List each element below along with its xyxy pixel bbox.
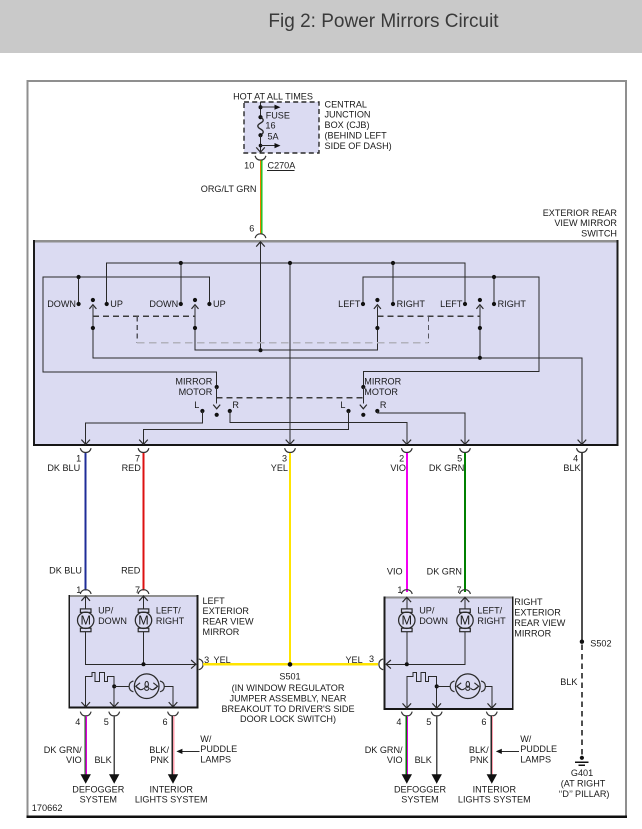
svg-text:BLK/: BLK/ [149, 745, 169, 755]
wire BLK/PNK (right mirror pin 6 w/ puddle lamps) [487, 716, 497, 784]
label MIRROR MOTOR (right selector) [364, 377, 401, 397]
switch section 3 wiper pole [374, 298, 381, 330]
wire BLK/PNK (left mirror pin 6 w/ puddle lamps) [168, 716, 178, 784]
svg-text:1: 1 [76, 453, 81, 463]
label RED (mid) [121, 565, 141, 575]
header bar [0, 0, 642, 53]
wire bus B (DOWN1/UP2 to left mirror-motor selector) [43, 275, 217, 387]
svg-text:7: 7 [457, 585, 462, 595]
label DK GRN/VIO (right) [365, 745, 403, 765]
switch pin 7 connector cup and labels (RED) [122, 448, 149, 473]
svg-text:DK BLU: DK BLU [47, 463, 80, 473]
switch pin 3 connector cup and labels (YEL) [271, 448, 296, 473]
label BLK (left pin 5) [94, 755, 111, 765]
svg-text:5: 5 [426, 717, 431, 727]
svg-text:UP/: UP/ [98, 606, 114, 616]
motor M1 UP/DOWN (left mirror) [78, 606, 127, 632]
wire bus A (common to pin 3) [107, 261, 465, 304]
label LEFT EXTERIOR REAR VIEW MIRROR [203, 596, 254, 637]
wire DK GRN/VIO (right mirror pin 4 to defogger system) [402, 716, 412, 784]
left exterior rear view mirror box [68, 595, 198, 709]
switch section 1 wiper pole [89, 298, 96, 330]
motor M2 LEFT/RIGHT (left mirror) [135, 606, 184, 632]
svg-text:DK GRN: DK GRN [427, 567, 462, 577]
w/ puddle lamps pointer arrow (right) [496, 749, 519, 754]
svg-text:4: 4 [396, 717, 401, 727]
puddle lamp (left mirror) [114, 674, 173, 703]
pin 6 entry arrow and feed wire [256, 241, 265, 350]
svg-text:RIGHT: RIGHT [498, 299, 527, 309]
svg-text:(IN WINDOW REGULATOR: (IN WINDOW REGULATOR [232, 683, 345, 693]
mechanical link light dashed cross bar [137, 342, 428, 344]
right mirror pin 5 exit arrow and cup [426, 700, 442, 727]
switch pin 5 connector cup and labels (DK GRN) [429, 448, 470, 473]
svg-text:DOWN: DOWN [149, 299, 178, 309]
left mirror pin 7 cup and entry arrow [135, 585, 149, 609]
svg-text:7: 7 [135, 585, 140, 595]
svg-text:4: 4 [75, 717, 80, 727]
svg-text:DK GRN/: DK GRN/ [44, 745, 82, 755]
wire BLK dashed (S502 to G401) [581, 645, 583, 756]
wire BLK (switch pin 4 to S502) [581, 453, 583, 640]
svg-text:VIO: VIO [66, 755, 82, 765]
label EXTERIOR REAR VIEW MIRROR SWITCH [543, 208, 618, 239]
left selector contact R [228, 400, 240, 413]
svg-text:LEFT: LEFT [338, 299, 361, 309]
svg-text:16: 16 [265, 121, 275, 131]
pin 6 connector cup [255, 234, 266, 238]
label DEFOGGER SYSTEM (right) [394, 784, 446, 804]
motor M2 LEFT/RIGHT (right mirror) [457, 606, 506, 632]
svg-text:BLK: BLK [560, 677, 577, 687]
svg-text:RED: RED [121, 565, 141, 575]
svg-text:PNK: PNK [150, 755, 169, 765]
svg-text:5: 5 [104, 717, 109, 727]
svg-text:5A: 5A [268, 132, 280, 142]
svg-text:REAR VIEW: REAR VIEW [203, 617, 254, 627]
svg-text:2: 2 [399, 453, 404, 463]
svg-text:UP: UP [110, 299, 123, 309]
svg-text:MOTOR: MOTOR [179, 387, 213, 397]
puddle lamp (right mirror) [437, 674, 492, 703]
wire pin 3 drop (bus A to pin 3) [286, 261, 295, 445]
svg-text:4: 4 [573, 453, 578, 463]
left mirror pin 5 exit arrow and cup [104, 700, 120, 727]
svg-text:EXTERIOR REAR: EXTERIOR REAR [543, 208, 618, 218]
svg-text:LIGHTS SYSTEM: LIGHTS SYSTEM [135, 795, 208, 805]
left mirror-motor selector wiper [213, 385, 220, 417]
left mirror pin 6 exit arrow and cup [163, 700, 179, 727]
svg-text:C270A: C270A [268, 161, 297, 171]
svg-text:VIO: VIO [387, 755, 403, 765]
svg-text:L: L [194, 400, 199, 410]
pin 10 label [244, 161, 254, 171]
svg-text:S501: S501 [279, 672, 300, 682]
switch section 1 contacts DOWN/UP [47, 299, 123, 309]
wire R contact to pin 2 [230, 411, 411, 445]
svg-text:BLK: BLK [94, 755, 111, 765]
svg-text:170662: 170662 [32, 803, 63, 813]
left mirror pin 3 cup and label [199, 655, 231, 670]
connector C270A cup [255, 156, 266, 160]
svg-text:LEFT: LEFT [440, 299, 463, 309]
svg-text:RIGHT: RIGHT [397, 299, 426, 309]
svg-text:PNK: PNK [470, 755, 489, 765]
svg-text:PUDDLE: PUDDLE [520, 744, 557, 754]
label BLK/PNK (left) [149, 745, 169, 765]
svg-text:W/: W/ [520, 734, 532, 744]
wire YEL (left mirror pin 3 to right mirror pin 3 through S501) [203, 663, 378, 665]
label DK GRN/VIO (left) [44, 745, 82, 765]
svg-text:JUNCTION: JUNCTION [325, 110, 371, 120]
svg-text:DOWN: DOWN [98, 616, 127, 626]
svg-text:SIDE OF DASH): SIDE OF DASH) [325, 141, 392, 151]
svg-text:W/: W/ [200, 734, 212, 744]
wire BLK (left mirror pin 5 to interior lights) [109, 716, 119, 784]
svg-text:Fig 2: Power Mirrors Circuit: Fig 2: Power Mirrors Circuit [268, 11, 499, 32]
switch section 4 contacts LEFT/RIGHT [440, 299, 526, 309]
svg-text:RED: RED [122, 463, 142, 473]
switch section 4 wiper pole [476, 298, 483, 330]
splice S501 [279, 662, 300, 681]
fuse 16 5A element [258, 110, 290, 141]
svg-text:3: 3 [369, 654, 374, 664]
switch pin 2 connector cup and labels (VIO) [390, 448, 412, 473]
label DK GRN (mid) [427, 567, 462, 577]
svg-text:SWITCH: SWITCH [581, 229, 617, 239]
svg-text:LAMPS: LAMPS [520, 755, 551, 765]
wire feed bus (poles 2 and 3) [195, 328, 377, 352]
right exterior rear view mirror box [384, 596, 514, 710]
splice S502 [580, 639, 612, 649]
mechanical link dashed drop right [428, 316, 430, 342]
figure number 170662 [32, 803, 63, 813]
svg-text:G401: G401 [571, 768, 593, 778]
label VIO (mid) [387, 567, 403, 577]
svg-text:DK GRN: DK GRN [429, 463, 464, 473]
svg-text:YEL: YEL [271, 463, 288, 473]
svg-text:EXTERIOR: EXTERIOR [203, 606, 250, 616]
svg-text:DOWN: DOWN [47, 299, 76, 309]
right mirror pin 4 exit arrow and cup [396, 700, 412, 727]
wire L contact to pin 1 [81, 411, 202, 445]
switch section 2 contacts DOWN/UP [149, 299, 225, 309]
central junction box (CJB) dashed box [244, 102, 319, 153]
fuse F16 feed wire and branch arrows [259, 102, 281, 117]
right mirror pin 7 cup and entry arrow [457, 585, 471, 609]
w/ puddle lamps pointer arrow (left) [176, 749, 199, 754]
label CENTRAL JUNCTION BOX (CJB) (BEHIND LEFT SIDE OF DASH) [325, 99, 392, 151]
svg-text:LEFT: LEFT [203, 596, 226, 606]
defogger grid element (left mirror) [86, 672, 117, 703]
svg-text:EXTERIOR: EXTERIOR [514, 608, 561, 618]
mechanical link dashed bar (sections 1-2) [93, 315, 195, 317]
svg-text:L: L [340, 400, 345, 410]
right selector contact R [375, 400, 387, 413]
svg-text:RIGHT: RIGHT [477, 616, 506, 626]
wire bus C (LEFT3/RIGHT4 to right mirror-motor selector) [363, 275, 539, 387]
svg-text:SYSTEM: SYSTEM [401, 795, 438, 805]
wire right L contact to pin 7 [139, 411, 348, 445]
mechanical link dashed bar (sections 3-4) [377, 315, 480, 317]
svg-text:RIGHT: RIGHT [156, 616, 185, 626]
wire DK BLU (switch pin 1 to left mirror pin 1) [85, 453, 87, 591]
label ORG/LT GRN [201, 184, 257, 194]
svg-text:6: 6 [249, 223, 254, 233]
label S501 location note [221, 683, 354, 724]
svg-text:5: 5 [457, 453, 462, 463]
label RIGHT EXTERIOR REAR VIEW MIRROR [514, 597, 565, 638]
svg-text:BOX (CJB): BOX (CJB) [325, 120, 370, 130]
svg-text:M: M [138, 614, 149, 628]
svg-text:DOWN: DOWN [419, 616, 448, 626]
svg-text:VIO: VIO [390, 463, 406, 473]
connector label C270A [267, 161, 296, 171]
svg-text:LAMPS: LAMPS [200, 755, 231, 765]
svg-text:BREAKOUT TO DRIVER'S SIDE: BREAKOUT TO DRIVER'S SIDE [221, 704, 354, 714]
svg-text:PUDDLE: PUDDLE [200, 744, 237, 754]
label MIRROR MOTOR (left selector) [175, 377, 212, 397]
left selector contact L [194, 400, 204, 413]
svg-text:6: 6 [163, 717, 168, 727]
svg-text:DOOR LOCK SWITCH): DOOR LOCK SWITCH) [240, 714, 336, 724]
svg-text:(BEHIND LEFT: (BEHIND LEFT [325, 131, 388, 141]
label HOT AT ALL TIMES [233, 91, 313, 101]
svg-text:DK BLU: DK BLU [49, 565, 82, 575]
svg-text:BLK: BLK [563, 463, 580, 473]
svg-text:ORG/LT GRN: ORG/LT GRN [201, 184, 257, 194]
svg-text:UP/: UP/ [419, 606, 435, 616]
svg-text:SYSTEM: SYSTEM [80, 795, 117, 805]
svg-text:6: 6 [481, 717, 486, 727]
label INTERIOR LIGHTS SYSTEM (left) [135, 784, 208, 804]
label DEFOGGER SYSTEM (left) [72, 784, 124, 804]
svg-text:MOTOR: MOTOR [364, 387, 398, 397]
right mirror-motor selector wiper [360, 385, 367, 417]
label W/ PUDDLE LAMPS (right) [520, 734, 557, 765]
svg-text:MIRROR: MIRROR [364, 377, 401, 387]
svg-text:7: 7 [135, 453, 140, 463]
svg-text:R: R [380, 400, 387, 410]
motor M1 UP/DOWN (right mirror) [399, 606, 448, 632]
svg-text:MIRROR: MIRROR [175, 377, 212, 387]
wire right R contact to pin 5 [377, 411, 469, 445]
label BLK (ground wire) [560, 677, 577, 687]
svg-text:‘‘D’’ PILLAR): ‘‘D’’ PILLAR) [559, 789, 610, 799]
svg-text:RIGHT: RIGHT [514, 597, 543, 607]
wire DK GRN/VIO (left mirror pin 4 to defogger system) [81, 716, 91, 784]
svg-text:LIGHTS SYSTEM: LIGHTS SYSTEM [458, 795, 531, 805]
left mirror internal bus and pin 3 exit arrow [86, 632, 196, 669]
label W/ PUDDLE LAMPS (left) [200, 734, 237, 765]
wire BLK (right mirror pin 5 to interior lights) [432, 716, 442, 784]
svg-text:DEFOGGER: DEFOGGER [394, 784, 446, 794]
wire ORG/LT GRN (fuse to switch pin 6) [260, 160, 263, 233]
svg-text:S502: S502 [590, 639, 611, 649]
svg-text:10: 10 [244, 161, 254, 171]
right selector contact L [340, 400, 350, 413]
svg-text:3: 3 [282, 453, 287, 463]
mechanical link dashed drop left [136, 316, 138, 342]
right mirror pin 1 cup and entry arrow [397, 585, 412, 609]
svg-text:VIEW MIRROR: VIEW MIRROR [554, 218, 617, 228]
label BLK (right pin 5) [415, 755, 432, 765]
pin 6 label [249, 223, 254, 233]
svg-text:INTERIOR: INTERIOR [473, 784, 517, 794]
left mirror pin 1 cup and entry arrow [76, 585, 91, 609]
svg-text:MIRROR: MIRROR [514, 628, 551, 638]
wire DK GRN (switch pin 5 to right mirror pin 7) [464, 453, 466, 592]
right mirror pin 3 cup and label [345, 654, 383, 670]
svg-text:BLK/: BLK/ [469, 745, 489, 755]
svg-text:REAR VIEW: REAR VIEW [514, 618, 565, 628]
switch section 3 contacts LEFT/RIGHT [338, 299, 425, 309]
wire ground bus (poles 1 and 4 to pin 4) [93, 328, 586, 445]
exterior rear view mirror switch box [33, 240, 619, 446]
svg-text:BLK: BLK [415, 755, 432, 765]
fuse lower branch and exit arrow [256, 135, 280, 152]
left mirror pin 4 exit arrow and cup [75, 700, 91, 727]
right mirror internal bus and pin 3 entry arrow [386, 632, 465, 669]
mechanical link dashed bar (mirror motor selectors) [217, 397, 364, 399]
svg-text:LEFT/: LEFT/ [156, 606, 181, 616]
svg-text:MIRROR: MIRROR [203, 627, 240, 637]
svg-text:UP: UP [213, 299, 226, 309]
svg-text:HOT AT ALL TIMES: HOT AT ALL TIMES [233, 91, 313, 101]
ground G401 symbol [575, 756, 588, 766]
label BLK/PNK (right) [469, 745, 489, 765]
svg-text:INTERIOR: INTERIOR [149, 784, 193, 794]
wire RED (switch pin 7 to left mirror pin 7) [143, 453, 145, 591]
label DK BLU (mid) [49, 565, 82, 575]
svg-text:JUMPER ASSEMBLY, NEAR: JUMPER ASSEMBLY, NEAR [230, 693, 347, 703]
svg-text:M: M [80, 614, 91, 628]
svg-text:LEFT/: LEFT/ [477, 606, 502, 616]
svg-text:DK GRN/: DK GRN/ [365, 745, 403, 755]
switch section 2 wiper pole [192, 298, 199, 330]
svg-text:FUSE: FUSE [266, 110, 290, 120]
right mirror pin 6 exit arrow and cup [481, 700, 497, 727]
wire YEL (switch pin 3 down to S501) [289, 453, 291, 664]
switch pin 1 connector cup and labels (DK BLU) [47, 448, 91, 473]
svg-text:(AT RIGHT: (AT RIGHT [561, 778, 606, 788]
switch pin 4 connector cup and labels (BLK) [563, 448, 587, 473]
svg-text:R: R [232, 400, 239, 410]
label G401 (AT RIGHT "D" PILLAR) [559, 768, 610, 799]
svg-text:M: M [460, 614, 471, 628]
defogger grid element (right mirror) [407, 672, 439, 703]
svg-text:VIO: VIO [387, 567, 403, 577]
svg-text:CENTRAL: CENTRAL [325, 99, 367, 109]
svg-text:M: M [402, 614, 413, 628]
svg-text:DEFOGGER: DEFOGGER [72, 784, 124, 794]
wire VIO (switch pin 2 to right mirror pin 1) [406, 453, 408, 592]
label INTERIOR LIGHTS SYSTEM (right) [458, 784, 531, 804]
